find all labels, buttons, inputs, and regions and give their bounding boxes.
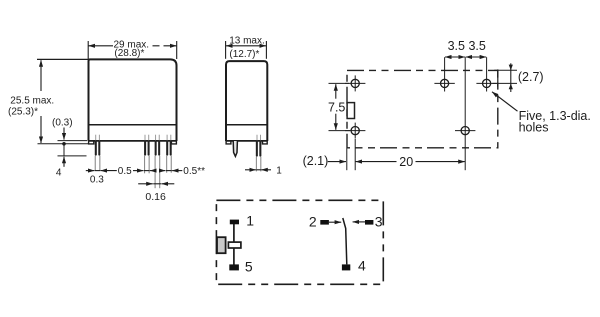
front pin 4 (contact terminal) thin tip bbox=[167, 156, 172, 173]
front pin 1 (coil terminal) thin tip bbox=[95, 156, 100, 171]
hole 1 (1.3 dia) bbox=[351, 79, 359, 87]
relay case front bottom edge bbox=[89, 140, 177, 142]
hole 3 crosshair bbox=[476, 82, 496, 84]
PCB outline dashed rectangle bbox=[347, 70, 498, 147]
dim 29 max: right extension line bbox=[176, 41, 178, 59]
dim 13 max: dimension line with outward arrows bbox=[226, 45, 266, 47]
svg-text:(0.3): (0.3) bbox=[52, 118, 73, 129]
center line through holes 2/3 gap and hole 5 bbox=[464, 57, 466, 170]
svg-text:0.16: 0.16 bbox=[145, 191, 166, 203]
dim (2.7): dimension line bbox=[510, 63, 512, 92]
dim 25.5 max: lower arrow bbox=[40, 116, 42, 143]
dim 13 max: right extension line bbox=[265, 41, 267, 59]
dim 7.5: lower arrow bbox=[335, 114, 337, 130]
front pin 1 (coil terminal) slot lines bbox=[96, 135, 100, 141]
hole 2 crosshair bbox=[434, 82, 454, 84]
terminal pad 1 bbox=[230, 220, 239, 225]
front pin 4 (contact terminal) wide section side bars bbox=[167, 141, 171, 154]
hole 3 vertical extension bbox=[486, 57, 488, 91]
dim (0.3): case bottom extension line bbox=[58, 140, 88, 142]
dim (2.1)/20: left extension line bbox=[346, 149, 348, 171]
leader arrow to hole 3 bbox=[492, 92, 518, 111]
dim 3.5 right: dimension line with outward arrows bbox=[466, 56, 487, 58]
dim 7.5: upper arrow bbox=[335, 84, 337, 99]
dim (2.1): leader arrow bbox=[328, 161, 346, 163]
svg-text:7.5: 7.5 bbox=[328, 101, 345, 115]
svg-text:(25.3)*: (25.3)* bbox=[8, 107, 38, 118]
relay case front cover/base split line bbox=[89, 124, 177, 126]
svg-text:1: 1 bbox=[246, 213, 254, 229]
dim 4 / (0.3): shared junction dot bbox=[62, 142, 66, 146]
dim (2.7): lower arrowhead bbox=[509, 84, 513, 90]
dim (0.3): down arrow bbox=[63, 128, 65, 140]
hole 3 (1.3 dia) bbox=[483, 79, 491, 87]
coil rectangle bbox=[228, 242, 241, 248]
relay case side cover/base split line bbox=[226, 124, 267, 126]
terminal pad 4 bbox=[342, 264, 350, 270]
dim 13 max: left extension line bbox=[225, 41, 227, 59]
svg-text:0.3: 0.3 bbox=[90, 175, 104, 186]
dim 0.3 pin1 width: dimension line with inward arrows bbox=[86, 170, 117, 172]
front pin 2 (contact terminal) slot lines bbox=[145, 135, 149, 141]
dim 20: hole-4 extension line bbox=[354, 139, 356, 170]
dim 3.5 left: dimension line with outward arrows bbox=[445, 56, 465, 58]
internal connections dashed box bbox=[216, 200, 383, 284]
hole 4 crosshair bbox=[345, 123, 365, 139]
front left corner foot bbox=[89, 141, 94, 144]
dim (2.7): hole-3 level extension line bbox=[493, 82, 518, 84]
dim 25.5 max: top extension line bbox=[37, 58, 89, 60]
dim 29 max: dimension line left part with arrow bbox=[88, 45, 113, 47]
front pin 3 (middle contact terminal) thin tip bbox=[155, 156, 160, 189]
hole 2 (1.3 dia) bbox=[441, 79, 449, 87]
svg-text:3: 3 bbox=[375, 214, 383, 230]
hole 4 (1.3 dia) bbox=[351, 127, 359, 135]
dim 4: up arrow bbox=[63, 157, 65, 167]
dim 7.5: top extension line bbox=[329, 82, 350, 84]
dim 0.5** pin4 width: dimension line with inward arrows bbox=[161, 170, 182, 172]
hole 1 crosshair bbox=[345, 75, 365, 91]
front pin 3 (middle contact terminal) slot lines bbox=[156, 135, 160, 141]
svg-text:5: 5 bbox=[245, 259, 253, 275]
dim 7.5: bottom extension line bbox=[329, 130, 351, 132]
dim 20: dimension line right part with outward arrow bbox=[416, 161, 465, 163]
dim 29 max: left extension line bbox=[87, 41, 89, 59]
front right corner foot bbox=[171, 141, 176, 144]
front pin 1 (coil terminal) wide section side bars bbox=[96, 141, 100, 154]
dim (2.7): top edge extension line bbox=[494, 69, 517, 71]
dashed rect right-edge stub at (2.7) bbox=[497, 69, 499, 86]
svg-text:20: 20 bbox=[399, 155, 413, 169]
front pin 4 (contact terminal) slot lines bbox=[167, 135, 171, 141]
movable contact blade to pin 4 bbox=[343, 218, 347, 264]
svg-text:(2.1): (2.1) bbox=[303, 154, 329, 168]
svg-text:(28.8)*: (28.8)* bbox=[114, 48, 144, 59]
side contact pin thin tip bbox=[256, 157, 260, 172]
side left corner foot bbox=[226, 141, 231, 144]
svg-text:4: 4 bbox=[56, 167, 62, 178]
dim 4: pin-end extension line bbox=[58, 155, 87, 157]
terminal pad 5 bbox=[229, 264, 239, 270]
side coil pin (tapered blade) bbox=[233, 141, 237, 156]
coil wire pin1-pin5 bbox=[233, 224, 235, 265]
svg-text:0.5: 0.5 bbox=[118, 166, 132, 177]
side contact pin slot lines bbox=[257, 135, 261, 141]
svg-text:2: 2 bbox=[309, 214, 317, 230]
dim 4: link line bbox=[63, 144, 65, 156]
relay case side bottom edge bbox=[226, 140, 267, 142]
front pin 3 (middle contact terminal) wide section side bars bbox=[156, 141, 160, 154]
dim (2.7): upper arrowhead bbox=[509, 65, 513, 71]
dim 1 pin width: dimension line with inward arrows bbox=[245, 169, 271, 171]
arrow from pad 3 to contact bbox=[353, 221, 365, 223]
dim 25.5 max: bottom extension line (seating plane) bbox=[38, 143, 89, 145]
dim 29 max: dimension line right part dashed with arrow bbox=[153, 45, 177, 47]
dim 0.5 pin2 width: dimension line with inward arrows bbox=[133, 170, 152, 172]
front pin 2 (contact terminal) wide section side bars bbox=[145, 141, 149, 154]
hole 5 crosshair bbox=[455, 130, 475, 132]
arrow from pad 2 to contact bbox=[329, 221, 341, 223]
relay case side view outline bbox=[226, 61, 267, 141]
svg-text:4: 4 bbox=[358, 257, 366, 273]
terminal pad 2 bbox=[320, 220, 329, 225]
svg-text:25.5 max.: 25.5 max. bbox=[10, 96, 54, 107]
svg-text:(2.7): (2.7) bbox=[518, 70, 544, 84]
svg-text:0.5**: 0.5** bbox=[183, 166, 205, 177]
svg-text:3.5 3.5: 3.5 3.5 bbox=[448, 39, 486, 53]
side right corner foot bbox=[263, 141, 268, 144]
dim 25.5 max: upper arrow bbox=[40, 60, 42, 91]
terminal pad 3 bbox=[365, 220, 373, 225]
svg-text:1: 1 bbox=[276, 166, 282, 177]
hole 5 (1.3 dia) bbox=[461, 127, 469, 135]
front pin 2 (contact terminal) thin tip bbox=[145, 156, 150, 174]
dim 0.16 pin3 thickness: dimension line with inward arrows bbox=[138, 183, 174, 185]
hole 2 vertical extension bbox=[444, 57, 446, 91]
orientation mark (gray) on left edge bbox=[217, 237, 226, 253]
svg-text:holes: holes bbox=[519, 121, 549, 135]
svg-text:13 max.: 13 max. bbox=[229, 36, 265, 47]
dim 20: dimension line left part with outward arrow bbox=[356, 161, 397, 163]
relay case front view outline bbox=[89, 59, 177, 141]
orientation notch rectangle on left edge bbox=[347, 103, 354, 119]
svg-text:(12.7)*: (12.7)* bbox=[229, 49, 259, 60]
side contact pin wide section side bars bbox=[257, 141, 261, 155]
